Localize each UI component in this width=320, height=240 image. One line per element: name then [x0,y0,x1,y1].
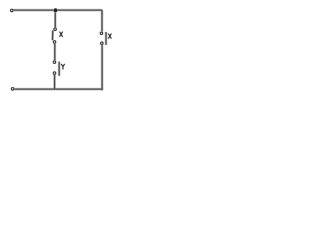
switch X2 bottom contact circle [100,41,104,45]
terminal T1 (top-left open contact circle) [10,9,14,13]
labels halo layer [60,32,112,70]
node A junction dot halo [53,8,58,13]
label Y for switch Y1 [61,64,64,69]
terminal T2 (bottom-left open contact circle) [11,87,15,91]
switch X2 top contact circle [99,31,103,35]
label X for switch X2 [108,34,111,39]
node A junction dot [54,8,58,12]
switch X1 top contact circle [53,27,57,31]
soft halo layer for wires [14,10,107,90]
core ink layer for wires [14,10,107,90]
label X for switch X1 [60,32,63,37]
switch X1 bottom contact circle [53,40,57,44]
switch Y1 bottom contact circle [53,71,57,75]
switch Y1 top contact circle [52,60,56,64]
